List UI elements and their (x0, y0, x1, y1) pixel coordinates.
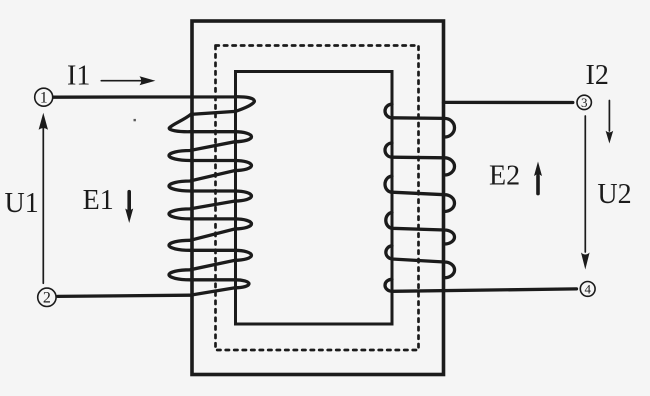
svg-text:E2: E2 (489, 161, 520, 192)
svg-text:4: 4 (584, 282, 591, 297)
svg-text:2: 2 (43, 290, 51, 307)
svg-text:U2: U2 (597, 179, 631, 210)
svg-text:I1: I1 (67, 61, 90, 92)
svg-text:3: 3 (581, 95, 588, 110)
svg-text:U1: U1 (5, 188, 39, 219)
svg-text:E1: E1 (83, 185, 114, 216)
svg-text:I2: I2 (586, 60, 609, 91)
svg-text:1: 1 (40, 90, 48, 107)
